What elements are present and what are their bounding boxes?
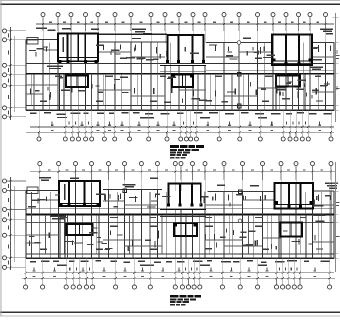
sheet bottom gray border line — [0, 316, 340, 317]
bottom plan: labels above facade — [39, 177, 338, 189]
bottom plan: long beam line upper — [26, 208, 334, 210]
bottom plan: bottom dimension lines — [22, 271, 335, 280]
bottom plan: left balcony boxes — [27, 187, 38, 194]
top plan: text row under building bottom — [30, 112, 332, 118]
top plan: stair shaft S2 (thick walls) — [272, 35, 312, 66]
bottom plan: top dimension line with ticks and numbers — [30, 169, 335, 172]
bottom plan: left grid bubbles column — [3, 179, 27, 269]
top plan: elevator core E1 (thick walls) — [66, 76, 88, 88]
bottom plan: stair shaft S1' (thick walls) — [59, 181, 100, 206]
top plan: top dimension line with ticks and numbers — [36, 22, 334, 25]
sheet top gray border line — [0, 0, 340, 1]
bottom plan: left vertical dimension lines — [8, 177, 14, 270]
top plan: labels above facade — [36, 27, 333, 34]
top plan: secondary beam line right — [206, 69, 334, 71]
bottom plan: right vertical dimension lines — [329, 162, 339, 272]
bottom plan: scattered beam label texts — [28, 193, 331, 258]
top plan: grid tick lines from top bubbles — [43, 17, 326, 43]
top plan: vertical grid/wall lines — [43, 34, 326, 111]
title block of bottom plan (drawing name and scale) — [170, 295, 201, 306]
bottom plan: corridor second line — [26, 221, 334, 223]
bottom plan: column grid bubbles (top row) — [38, 162, 333, 166]
top plan: rotated dimension digits row — [52, 121, 321, 124]
bottom plan: elevator core E1' (thick walls) — [66, 224, 92, 235]
bottom plan: bottom grid bubbles row — [24, 258, 332, 289]
bottom plan: lower beam line — [26, 253, 334, 255]
top plan: lower beam line — [26, 105, 334, 107]
sheet top black border line — [0, 3, 340, 5]
top plan: central core shaft (thick walls) — [160, 35, 206, 87]
top plan: column markers on corridor — [237, 41, 241, 108]
bottom plan: rotated dimension digits row — [34, 267, 316, 270]
bottom plan: corridor wall line (thick) — [26, 214, 334, 216]
bottom plan: central core shaft (thick walls) — [160, 184, 206, 237]
top plan: building left wall — [25, 40, 27, 111]
bottom plan: vertical grid/wall lines — [40, 183, 331, 259]
bottom plan: column markers on corridor — [123, 189, 242, 223]
top plan: left balcony boxes — [27, 38, 38, 45]
sheet left gray border line — [0, 1, 3, 316]
top plan: corridor band labels — [55, 76, 321, 77]
top plan: bottom dimension lines — [26, 125, 334, 134]
top plan: column grid bubbles (top row) — [41, 13, 328, 17]
top plan: long beam line upper — [26, 63, 334, 65]
bottom plan: corridor band labels — [60, 217, 306, 218]
bottom plan: intermediate interior wall lines — [32, 192, 322, 258]
top plan: elevator core E2 (thick walls) — [276, 76, 300, 87]
title block of top plan (drawing name and scale) — [170, 145, 204, 158]
top plan: left vertical dimension lines — [8, 27, 14, 120]
bottom plan: building bottom wall — [26, 257, 334, 259]
top plan: stair shaft S1 (thick walls) — [58, 34, 98, 63]
bottom plan: elevator core E2' (thick walls) — [281, 223, 302, 237]
top plan: top facade wall segments — [26, 34, 334, 42]
top plan: intermediate interior wall lines — [31, 43, 318, 111]
bottom plan: building left wall — [25, 191, 27, 259]
top plan: short interior beam segments — [26, 50, 334, 96]
top plan: scattered beam label texts — [29, 38, 331, 111]
top plan: building bottom wall — [26, 109, 334, 111]
bottom plan: grid tick lines from top bubbles — [40, 166, 331, 191]
top plan: bottom grid bubbles row — [37, 111, 333, 142]
top plan: building right wall — [333, 43, 335, 111]
top plan: left grid bubbles column — [3, 29, 27, 119]
sheet bottom black border line — [0, 311, 340, 313]
bottom plan: short interior beam segments — [26, 200, 334, 246]
bottom plan: top facade wall segments — [26, 190, 334, 192]
top plan: right vertical dimension line — [333, 13, 340, 122]
bottom plan: building right wall — [333, 191, 335, 258]
bottom plan: text row under building bottom — [30, 260, 330, 266]
bottom plan: stair shaft S2' (thick walls) — [275, 183, 314, 209]
top plan: corridor wall line (thick) — [26, 73, 334, 75]
